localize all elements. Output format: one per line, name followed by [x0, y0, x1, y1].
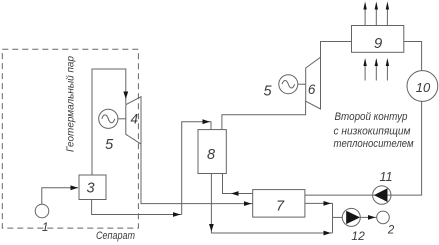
air flow arrows below condenser 9 — [363, 58, 389, 81]
svg-text:5: 5 — [263, 84, 272, 100]
pump 11 (circle with triangle) — [373, 186, 391, 204]
condenser 9 (box) — [352, 26, 404, 53]
evaporator 8 (box) — [198, 130, 226, 174]
generator 5 of turbine 6 (circle with sine) — [279, 75, 298, 94]
shaft: generator 5 to turbine 4 — [118, 118, 126, 120]
svg-text:Геотермальный пар: Геотермальный пар — [65, 56, 77, 152]
air flow arrows above condenser 9 — [363, 2, 389, 26]
svg-text:Сепарат: Сепарат — [96, 230, 135, 242]
svg-text:12: 12 — [351, 229, 365, 243]
arrow on separator drain line — [173, 212, 181, 217]
arrow down on drain — [209, 224, 214, 232]
pump 12 (circle with triangle) — [342, 208, 360, 226]
svg-text:6: 6 — [308, 82, 316, 97]
arrow into well 2 — [368, 215, 376, 220]
arrow into separator 3 — [71, 185, 79, 190]
wire: turbine 4 exhaust down and right to heater 7 — [141, 144, 253, 204]
separator 3 (box) — [79, 175, 106, 200]
svg-text:7: 7 — [276, 199, 285, 215]
wire: well 1 to separator 3 — [42, 188, 78, 205]
wire: evaporator 8 condensate drain down — [211, 174, 332, 234]
wire: riser up to evaporator 8 top feed — [182, 122, 211, 215]
svg-text:3: 3 — [87, 181, 95, 197]
turbine 6 (trapezoid) — [306, 57, 321, 109]
wire: receiver 10 down to pump 11 line — [305, 101, 422, 195]
receiver 10 (circle) — [407, 71, 438, 102]
wire: heater 7 hot water outlet to reinjection riser — [305, 203, 333, 233]
svg-text:2: 2 — [387, 224, 395, 236]
wire: condenser 9 to receiver 10 — [404, 42, 422, 71]
svg-text:8: 8 — [207, 147, 215, 163]
svg-text:11: 11 — [380, 170, 393, 184]
wire: turbine 6 exhaust to condenser 9 — [321, 42, 352, 58]
arrow into heater 7 hot side — [244, 201, 252, 206]
svg-text:9: 9 — [374, 35, 383, 52]
wire: separator 3 drain to riser — [92, 200, 182, 215]
shaft: generator 5 to turbine 6 — [298, 83, 306, 85]
arrow into turbine 4 — [123, 92, 128, 100]
arrow on drain line into reinjection riser — [324, 231, 332, 236]
well 1 (circle) — [35, 204, 49, 218]
turbine 4 (trapezoid) — [126, 97, 141, 144]
generator 5 of turbine 4 (circle with sine) — [99, 109, 118, 128]
svg-text:10: 10 — [416, 80, 431, 95]
arrow into evaporator 8 top — [203, 119, 211, 124]
svg-text:Второй контур: Второй контур — [335, 111, 408, 123]
heater 7 (box) — [253, 190, 305, 218]
svg-text:1: 1 — [42, 220, 49, 234]
arrow on hot water outlet — [324, 201, 332, 206]
svg-text:5: 5 — [105, 137, 114, 153]
well 2 (circle) — [377, 211, 390, 224]
arrow toward evaporator riser (pointing left) — [231, 191, 239, 196]
wire: steam from separator 3 to turbine 4 — [92, 69, 126, 175]
wire: pump 12 to well 2 — [360, 216, 377, 218]
wire: heater 7 organic outlet up into evaporator 8 — [223, 174, 253, 194]
wire: evaporator 8 vapor out to turbine 6 — [222, 101, 306, 129]
wire: riser branch into pump 12 — [333, 216, 343, 218]
svg-text:4: 4 — [131, 111, 139, 126]
first-circuit dashed boundary — [2, 49, 138, 228]
svg-text:теплоносителем: теплоносителем — [334, 138, 414, 150]
svg-text:с низкокипящим: с низкокипящим — [334, 126, 411, 138]
